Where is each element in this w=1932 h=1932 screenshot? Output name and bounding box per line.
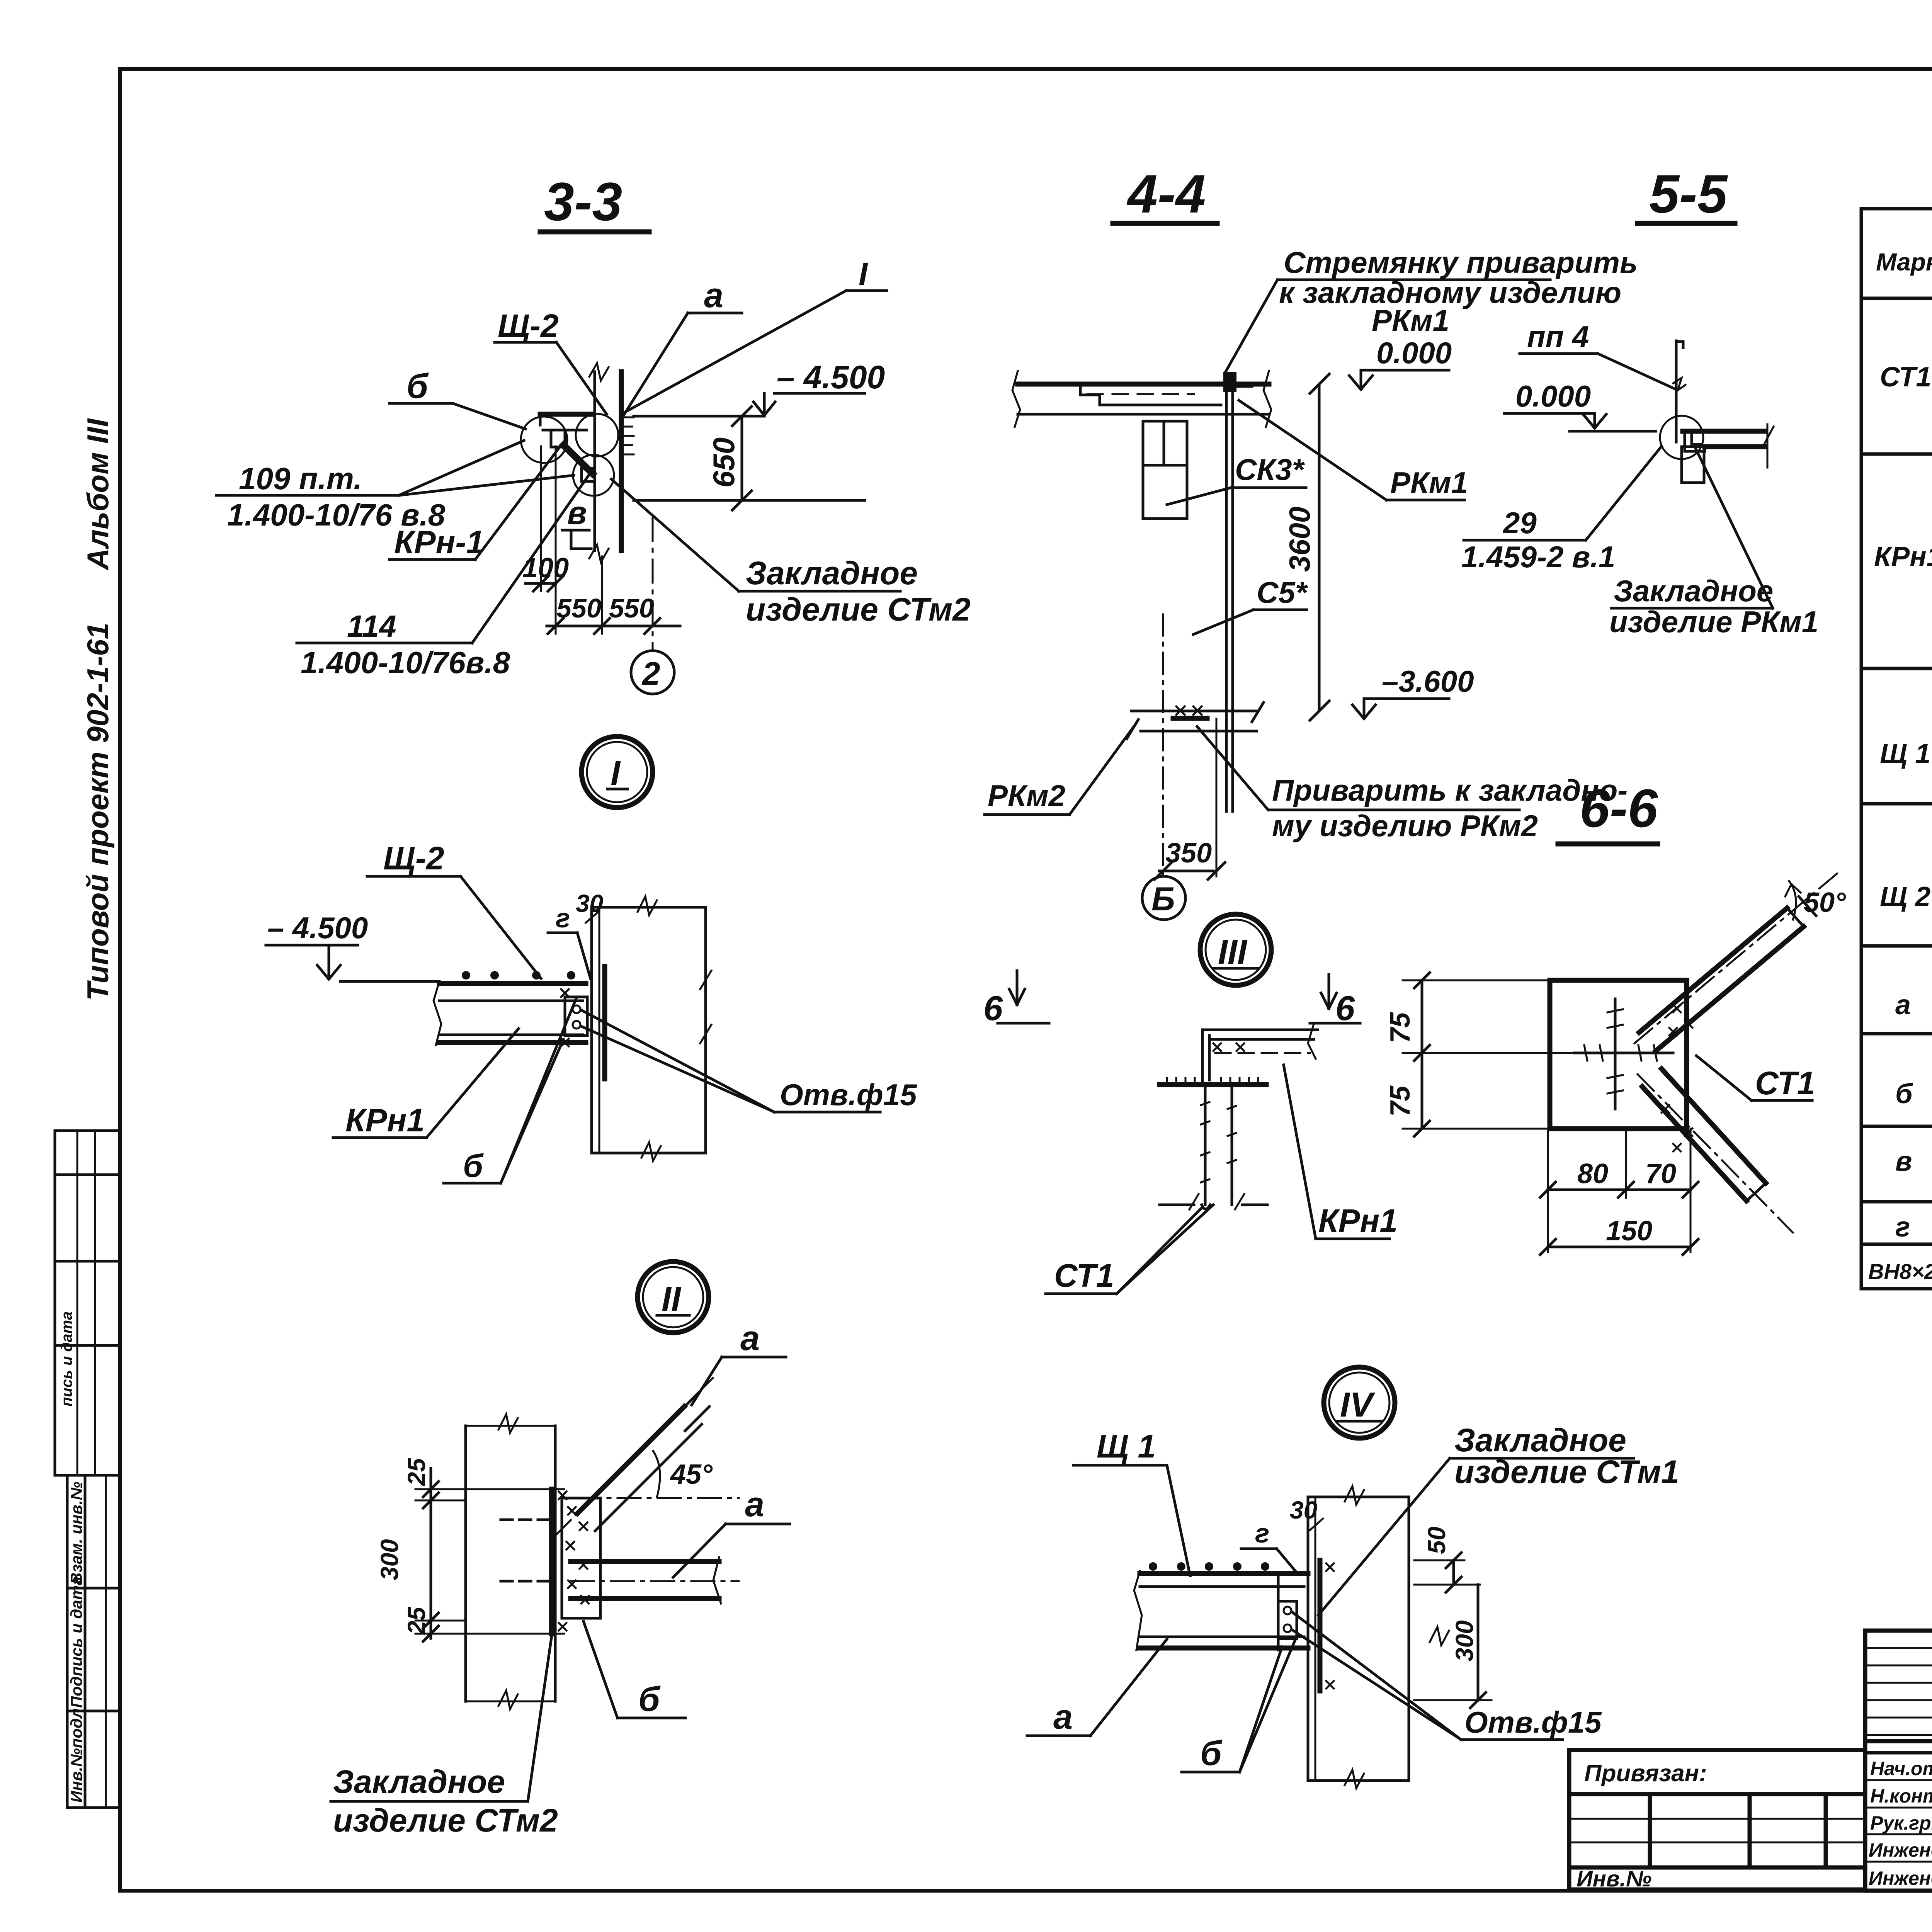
column [464,1426,467,1701]
svg-text:50: 50 [1423,1527,1451,1554]
svg-text:150: 150 [1606,1216,1652,1247]
svg-text:30: 30 [1290,1496,1317,1524]
top plate of detail [540,412,592,417]
svg-text:Инв.№подл: Инв.№подл [67,1708,85,1803]
svg-text:Закладное: Закладное [1614,574,1773,608]
svg-text:а: а [745,1485,764,1524]
small angle piece [551,430,565,447]
floor slab [1018,382,1269,387]
svg-text:Взам. инв.№: Взам. инв.№ [67,1481,85,1584]
svg-text:1.400-10/76в.8: 1.400-10/76в.8 [301,645,510,680]
svg-text:550: 550 [609,593,654,623]
svg-text:г: г [556,903,570,933]
privyazan box [1569,1750,1865,1889]
svg-text:29: 29 [1502,506,1537,540]
body rows text [1868,318,1932,1289]
svg-text:в: в [567,495,587,531]
svg-text:СТ1: СТ1 [1755,1065,1815,1101]
svg-text:КРн1: КРн1 [345,1102,425,1138]
inner cross [1614,999,1617,1109]
table grid [1861,209,1932,1289]
wall [1307,1497,1310,1781]
svg-text:КРн1: КРн1 [1874,541,1932,572]
left sidebar upper table [55,1131,120,1475]
embed plate [549,1489,554,1634]
svg-text:пп 4: пп 4 [1527,320,1589,354]
svg-text:изделие СТм2: изделие СТм2 [333,1802,558,1838]
svg-text:пись и дата: пись и дата [58,1311,75,1406]
svg-text:СТ1: СТ1 [1880,362,1931,393]
svg-text:Отв.ф15: Отв.ф15 [1464,1705,1602,1739]
svg-text:IV: IV [1340,1386,1376,1424]
dims [430,1468,432,1638]
svg-text:Привязан:: Привязан: [1584,1760,1707,1787]
svg-text:70: 70 [1645,1158,1676,1189]
svg-text:б: б [1200,1734,1223,1773]
svg-text:– 4.500: – 4.500 [777,359,885,395]
signature rows text [1869,1757,1932,1889]
svg-text:109 п.т.: 109 п.т. [239,461,362,496]
svg-text:114: 114 [347,609,396,643]
outer boxes [1865,1631,1932,1891]
svg-text:25: 25 [403,1458,430,1486]
column wall verticals [594,372,596,551]
svg-text:3600: 3600 [1284,507,1316,572]
horizontal member [571,1559,719,1564]
title block [1569,1631,1932,1894]
block below [1682,447,1704,483]
svg-text:– 4.500: – 4.500 [267,911,368,945]
node III and section 6-6 [983,914,1398,1294]
embed bar [1683,429,1764,434]
dashed anchors [501,1519,549,1521]
svg-text:75: 75 [1385,1012,1416,1043]
bottom dims 80/70/150 [1547,1129,1549,1252]
svg-text:РКм2: РКм2 [988,779,1065,813]
lower diagonal [1642,1087,1747,1201]
header texts [1876,223,1932,301]
svg-text:1.459-2 в.1: 1.459-2 в.1 [1461,540,1615,574]
svg-text:Закладное: Закладное [1454,1422,1626,1458]
detail circle [1660,416,1703,459]
svg-text:изделие СТм2: изделие СТм2 [746,591,971,628]
svg-text:–3.600: –3.600 [1382,664,1474,698]
detail circles [521,417,567,463]
svg-text:а: а [1053,1698,1073,1736]
svg-text:Стремянку приварить: Стремянку приварить [1284,245,1638,279]
circle Б [1142,876,1185,920]
left sidebar lower table [67,1475,120,1808]
node I [266,736,917,1184]
diagonal bar КРн-1 [561,443,595,476]
svg-text:Приварить к закладно-: Приварить к закладно- [1272,773,1628,807]
svg-text:Щ 1: Щ 1 [1880,738,1930,769]
svg-text:Марка: Марка [1876,248,1932,276]
elements list table [1861,149,1932,1289]
svg-text:Отв.ф15: Отв.ф15 [780,1078,917,1112]
svg-text:Щ 1: Щ 1 [1097,1428,1156,1464]
svg-text:Нач.отд.: Нач.отд. [1870,1758,1932,1779]
svg-text:Н.контр.: Н.контр. [1870,1785,1932,1807]
svg-text:Б: Б [1151,881,1175,918]
left margin rotated album text [81,418,115,1001]
svg-text:III: III [1218,933,1248,971]
svg-text:45°: 45° [670,1459,713,1490]
marka col [1874,362,1932,1243]
svg-text:300: 300 [376,1539,403,1580]
svg-text:80: 80 [1577,1158,1608,1189]
break marks [589,363,609,381]
svg-text:Инженер: Инженер [1869,1867,1932,1889]
svg-text:а: а [740,1319,760,1358]
svg-text:б: б [406,367,429,406]
left dims 75/75 [1403,980,1550,981]
svg-text:Альбом III: Альбом III [81,418,115,571]
axis line and circle 2 [652,518,654,650]
stringer [1225,376,1228,811]
svg-text:25: 25 [403,1606,430,1635]
bracket [1201,1030,1204,1085]
node IV [1027,1367,1679,1788]
svg-text:РКм1: РКм1 [1390,466,1468,500]
gusset [562,1498,600,1618]
wall [590,907,593,1153]
svg-text:0.000: 0.000 [1376,336,1452,370]
svg-text:в: в [1895,1146,1912,1177]
anchor cluster [565,997,587,1036]
svg-text:му изделию РКм2: му изделию РКм2 [1272,809,1538,843]
hatch ticks on wall [621,417,634,454]
fine grid rows of signature table [1865,1648,1932,1862]
embed plate [1318,1560,1323,1691]
svg-text:30: 30 [576,889,603,917]
lower floor [1131,710,1257,713]
svg-text:650: 650 [707,437,741,488]
svg-text:Подпись и дата: Подпись и дата [67,1577,85,1708]
node II [331,1262,790,1838]
anchors below [1204,1087,1207,1205]
svg-text:II: II [662,1280,682,1318]
svg-text:300: 300 [1451,1620,1478,1662]
svg-text:б: б [1895,1078,1913,1109]
section 3-3 [216,171,971,694]
svg-text:50°: 50° [1804,887,1846,918]
diagonal member [577,1406,684,1514]
beam [439,981,586,986]
СК3 block [1143,421,1187,519]
svg-text:к закладному изделию: к закладному изделию [1279,276,1621,310]
svg-text:а: а [704,276,723,315]
svg-text:Щ-2: Щ-2 [383,840,444,876]
svg-text:75: 75 [1385,1085,1416,1117]
svg-text:350: 350 [1165,838,1212,869]
svg-text:СК3*: СК3* [1235,452,1305,486]
svg-text:г: г [1255,1518,1269,1548]
ladder bar [1675,341,1678,442]
svg-text:5-5: 5-5 [1649,163,1728,224]
svg-text:6-6: 6-6 [1580,778,1658,838]
svg-text:2: 2 [641,655,660,692]
svg-text:изделие РКм1: изделие РКм1 [1609,605,1818,639]
svg-text:б: б [638,1680,661,1719]
svg-text:0.000: 0.000 [1515,379,1591,413]
svg-text:г: г [1895,1212,1910,1243]
gusset plate [1550,980,1687,1129]
svg-text:I: I [611,754,621,793]
upper diagonal [1639,908,1787,1032]
svg-text:РКм1: РКм1 [1372,303,1449,337]
svg-text:4-4: 4-4 [1126,163,1206,224]
svg-text:Закладное: Закладное [333,1764,505,1800]
section 5-5 [1461,163,1818,639]
svg-text:Щ 2: Щ 2 [1880,881,1930,912]
svg-text:КРн-1: КРн-1 [394,524,484,560]
bent plate and anchor [1277,1575,1280,1650]
svg-text:Типовой проект 902-1-61: Типовой проект 902-1-61 [81,622,115,1001]
svg-text:ВН8×23: ВН8×23 [1868,1259,1932,1284]
svg-text:Инв.№: Инв.№ [1577,1866,1651,1891]
section 4-4 [985,163,1638,920]
svg-text:изделие СТм1: изделие СТм1 [1454,1454,1679,1490]
horizontal plate [1160,1082,1266,1087]
svg-text:СТ1: СТ1 [1054,1257,1114,1294]
svg-text:б: б [463,1148,484,1184]
svg-text:3-3: 3-3 [544,171,622,232]
svg-text:КРн1: КРн1 [1318,1202,1398,1239]
svg-text:С5*: С5* [1257,575,1308,609]
svg-text:а: а [1895,990,1911,1020]
beam [1140,1571,1308,1576]
svg-text:Инженер: Инженер [1869,1839,1932,1861]
svg-text:Закладное: Закладное [746,555,918,591]
svg-text:Рук.гр.: Рук.гр. [1870,1812,1932,1834]
svg-text:I: I [859,256,868,292]
svg-text:Щ-2: Щ-2 [498,308,559,344]
